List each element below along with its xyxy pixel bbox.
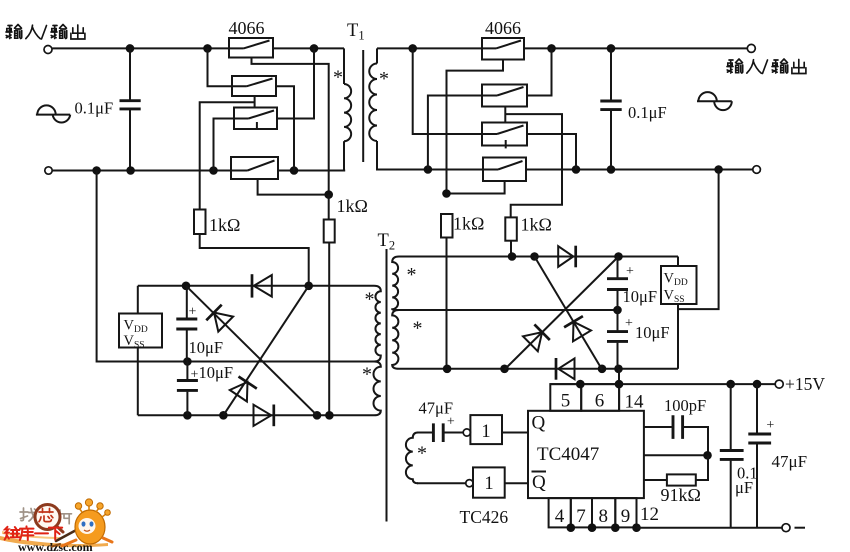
wire: S1a control down to 1k node — [252, 58, 329, 195]
svg-text:TC4047: TC4047 — [537, 444, 599, 465]
resistor R4 1k (right block right) — [505, 217, 517, 240]
svg-text:6: 6 — [595, 391, 605, 412]
node: +15V terminal — [775, 380, 783, 388]
capacitor C6 10uF lower-right: leads — [617, 310, 619, 369]
svg-text:Q: Q — [532, 472, 546, 493]
wire: top-left rail — [52, 47, 229, 49]
wire: R3 bottom to right bridge bottom line — [446, 238, 448, 369]
capacitor C10 plates — [748, 434, 771, 443]
resistor R2 1k (right of left block) — [324, 220, 335, 243]
transformer T1 primary top lead — [343, 48, 345, 84]
capacitor C4 10uF lower-left: leads — [186, 362, 188, 416]
svg-text:91kΩ: 91kΩ — [661, 485, 701, 505]
analog switch S3b — [482, 123, 527, 146]
node: dot cap midpoint left — [183, 357, 192, 366]
gate U2a input bubble — [463, 429, 470, 436]
svg-text:TC426: TC426 — [460, 507, 509, 527]
wire: common tap from upper rail to cap midpoint and T2 centre tap — [97, 171, 374, 362]
wire: bottom-left rail — [52, 170, 231, 172]
svg-text:0.1μF: 0.1μF — [75, 99, 114, 118]
capacitor C5 plates — [607, 279, 628, 290]
capacitor C10 47uF: top lead — [756, 384, 758, 433]
node: dot right 0.1uF bottom — [607, 165, 616, 174]
wire: VDD box bottom to right bridge bottom line — [677, 304, 679, 369]
node: dots on +15V rail — [576, 380, 585, 389]
wire: S4a control to 1k node — [258, 179, 329, 195]
capacitor C2 0.1uF right: top lead — [610, 48, 612, 99]
transformer T1 secondary bottom lead — [377, 141, 428, 170]
wire: S1b control down to 1k node — [447, 60, 504, 194]
IC U1 TC4047 body — [528, 411, 644, 498]
resistor R1 1k (left) — [194, 210, 206, 235]
wire: top rail from switch S1a to T1 primary — [273, 47, 344, 49]
transformer T2 right winding upper half — [392, 257, 399, 311]
wire: drive winding top lead to C7 — [417, 432, 432, 434]
capacitor C2 bottom lead — [610, 111, 612, 170]
analog switch S3a control stub — [256, 122, 258, 130]
wire: control node to right 1k resistor R4 — [505, 114, 562, 217]
wire: S3b output to bottom rail — [527, 134, 576, 170]
node: junction dot at 0.1uF tap — [126, 44, 135, 53]
gate U2a (TC426 driver) box — [470, 415, 502, 444]
svg-text:8: 8 — [599, 506, 609, 527]
capacitor C7 47uF plates (vertical) — [433, 423, 443, 442]
transformer T2 drive winding (lower right) — [406, 433, 418, 484]
wire: S2b right to top rail — [527, 48, 552, 95]
svg-text:4066: 4066 — [485, 18, 521, 38]
transformer T1 secondary top lead — [376, 48, 378, 63]
capacitor C1 0.1uF left: top lead — [129, 48, 131, 99]
node: dot at S1a/S4a control junction — [324, 190, 333, 199]
label: 输入/输出 (input/output) top-left — [6, 25, 40, 39]
svg-text:10μF: 10μF — [189, 338, 224, 357]
svg-text:14: 14 — [625, 392, 645, 413]
wire: TC4047 pin to 91k — [644, 479, 667, 481]
svg-text:*: * — [407, 264, 417, 286]
analog switch S1b — [482, 38, 524, 60]
svg-text:*: * — [417, 443, 427, 465]
wire: S3b input from top rail — [413, 48, 482, 134]
node: left input/output terminal (top) — [44, 46, 52, 54]
svg-text:4066: 4066 — [229, 18, 265, 38]
transformer T1 primary bottom lead — [343, 141, 345, 170]
wire: TC4047 mid pin to RC node — [644, 454, 708, 456]
node: junction dot at S3a output tap — [310, 44, 319, 53]
wire: top rail right side — [377, 47, 482, 49]
gate U2b input bubble — [466, 480, 473, 487]
svg-text:10μF: 10μF — [635, 323, 670, 342]
node: negative terminal — [782, 524, 790, 532]
svg-text:0.1μF: 0.1μF — [628, 103, 667, 122]
svg-text:1: 1 — [481, 422, 490, 442]
capacitor C9 bottom lead — [730, 461, 732, 528]
watermark swoosh — [0, 536, 108, 547]
node: dot left bridge top at cap chain — [182, 282, 191, 291]
gate U2b box — [473, 467, 505, 497]
wire: right bridge top line — [399, 256, 678, 258]
svg-text:1: 1 — [484, 474, 493, 494]
wire: S2a input from top rail — [208, 48, 233, 86]
wire: R2 top lead — [328, 195, 330, 220]
box: VDD VSS supply (left) — [119, 314, 162, 348]
capacitor C1 bottom lead — [129, 110, 131, 171]
AC sine symbol left — [36, 105, 70, 122]
wire: S2a/S3a control node vertical — [254, 96, 256, 108]
wire: bridge positive link down to +15V rail — [618, 369, 620, 384]
node: dot S2b output tap — [547, 44, 556, 53]
transformer T1 core — [362, 50, 364, 162]
node: dot right 0.1uF top — [607, 44, 616, 53]
svg-text:5: 5 — [561, 391, 571, 412]
svg-text:+: + — [626, 264, 634, 279]
wire: TC4047 pin to 100pF — [644, 426, 672, 428]
watermark magnifier ring — [35, 505, 60, 530]
node: dots right bridge bottom line — [443, 365, 452, 374]
wire: top rail from S1b to right terminal — [524, 47, 747, 49]
AC sine symbol right — [697, 92, 732, 110]
svg-text:+: + — [191, 368, 199, 383]
diode D6 on diagonal L1 (points up-left) — [535, 257, 603, 370]
svg-text:μF: μF — [735, 478, 753, 497]
svg-text:T1: T1 — [347, 21, 365, 43]
svg-text:VSS: VSS — [664, 288, 685, 306]
diode D7 on diagonal L2 (points up-right) — [505, 257, 619, 370]
svg-text:100pF: 100pF — [664, 396, 706, 415]
wire: control node to left 1k resistor — [200, 102, 255, 209]
wire: left bridge bottom line — [138, 414, 374, 416]
svg-text:+: + — [189, 305, 197, 320]
pin box 5 — [550, 384, 581, 411]
node: dots right bridge top line — [508, 252, 517, 261]
wire: S2b left to bottom rail — [428, 96, 482, 170]
node: dot right cap midpoint — [613, 306, 622, 315]
transformer T2 left winding lower half — [373, 362, 380, 416]
wire: R2 bottom to left bridge bottom line — [328, 243, 330, 416]
wire: left bridge left vertical (upper) — [137, 286, 139, 314]
analog switch S3b control stub — [505, 140, 507, 148]
label: 输入/输出 right — [727, 59, 761, 73]
svg-text:+: + — [625, 316, 633, 331]
capacitor C2 plates — [600, 101, 621, 110]
svg-text:VDD: VDD — [664, 271, 688, 289]
diode D8 (right bridge bottom, points left) — [558, 358, 574, 379]
wire: S2b/S3b control node vertical — [504, 107, 506, 123]
diode D1 (left bridge top, points left) — [251, 274, 254, 297]
wire: left bridge top line — [138, 285, 374, 287]
wire: S3a output to top rail — [277, 48, 314, 118]
wire: U2b output to TC4047 Qbar — [505, 482, 528, 484]
transformer T2 core — [386, 249, 388, 522]
wire: R4 bottom to right bridge top line — [510, 241, 512, 257]
pin 14 divider and label — [618, 384, 620, 411]
resistor R5 91k (horizontal) — [667, 474, 696, 485]
wire: negative rail — [637, 527, 783, 529]
svg-text:*: * — [379, 68, 389, 90]
node: dot S3b input tap — [408, 44, 417, 53]
wire: right bridge bottom line — [399, 368, 678, 370]
wire: left bridge left vertical (lower) — [137, 348, 139, 416]
svg-text:+15V: +15V — [785, 374, 825, 394]
svg-text:10μF: 10μF — [623, 287, 658, 306]
svg-text:12: 12 — [640, 504, 659, 525]
analog switch S1a (4066 left) — [229, 38, 273, 58]
node: dot RC node — [703, 451, 712, 460]
label: minus sign — [795, 527, 806, 529]
svg-text:4: 4 — [555, 506, 565, 527]
capacitor C3 plates — [176, 319, 197, 329]
wire: +15V rail — [550, 383, 775, 385]
watermark mascot — [52, 499, 112, 547]
svg-text:VSS: VSS — [124, 333, 145, 351]
capacitor C10 bottom lead — [756, 444, 758, 528]
svg-text:10μF: 10μF — [199, 363, 234, 382]
analog switch S3a — [234, 108, 277, 130]
pin box 6 — [581, 384, 619, 411]
capacitor C3 10uF upper-left: leads — [186, 286, 188, 362]
svg-text:47μF: 47μF — [772, 452, 808, 471]
node: right input/output terminal (bottom) — [753, 166, 761, 174]
node: dot at S3a input tap — [209, 166, 218, 175]
node: dot at C1 bottom — [126, 166, 135, 175]
svg-text:1kΩ: 1kΩ — [453, 214, 484, 234]
watermark text 找芯片 (gray outline style) — [20, 508, 72, 524]
wire: R1 bottom to left bridge top line — [200, 234, 309, 286]
svg-text:*: * — [362, 364, 372, 386]
node: bottom-left terminal — [45, 167, 52, 174]
node: dot common-supply tap right — [714, 165, 723, 174]
svg-text:+: + — [766, 418, 774, 433]
wire: S2a output to bottom rail — [276, 86, 294, 170]
node: dots on negative rail at pin dividers — [567, 523, 576, 532]
diode D4 (left bridge bottom, points right) — [254, 405, 272, 426]
wire: right bridge top corner to VDD box — [677, 257, 679, 267]
svg-text:9: 9 — [621, 506, 631, 527]
watermark: dzsc logo group — [0, 499, 112, 552]
transformer T1 secondary winding — [369, 64, 377, 142]
svg-text:*: * — [365, 289, 375, 311]
transformer T1 primary winding — [344, 84, 351, 141]
svg-text:1kΩ: 1kΩ — [209, 215, 240, 235]
node: dot S3b output tap — [572, 165, 581, 174]
box: VDD VSS supply (right) — [661, 266, 697, 304]
wire: bottom rail right side — [428, 169, 753, 171]
capacitor C4 plates — [177, 381, 198, 391]
capacitor C5 10uF upper-right: leads — [617, 257, 619, 311]
node: junction dot at S2a input tap — [203, 44, 212, 53]
analog switch S2a — [232, 76, 276, 96]
watermark text 维库一下 (red) — [5, 526, 63, 540]
wire: right common down to VSS net — [678, 170, 719, 310]
wire: U2a output to TC4047 Q — [502, 432, 528, 434]
node: dot S1b/S4b control junction — [442, 189, 451, 198]
analog switch S2b — [482, 85, 527, 107]
capacitor C8 100pF plates (vertical) — [673, 415, 683, 439]
analog switch S4a — [231, 157, 278, 179]
wire: 91k to RC node — [696, 455, 708, 480]
svg-text:7: 7 — [576, 506, 586, 527]
svg-text:1kΩ: 1kΩ — [521, 215, 552, 235]
diode D3 on diagonal from top-right (points up-right) — [223, 286, 308, 416]
node: dot at supply-common tap — [92, 166, 101, 175]
wire: S4b control to 1k node — [447, 181, 505, 194]
capacitor C9 0.1uF: top lead — [730, 384, 732, 449]
svg-text:Q: Q — [532, 413, 546, 434]
node: dot S2b tap on bottom rail — [424, 165, 433, 174]
capacitor C9 plates — [720, 451, 744, 460]
node: dot at S2a output tap — [290, 166, 299, 175]
transformer T2 right winding lower half — [392, 310, 399, 369]
svg-text:+: + — [447, 415, 455, 430]
wire: S3a input to bottom rail — [214, 119, 235, 171]
wire: right bridge centre tap line — [399, 309, 618, 311]
pin row boxes 4 7 8 9 — [549, 498, 571, 527]
analog switch S4b — [483, 158, 526, 182]
diode D5 (right bridge top, points right) — [558, 246, 573, 267]
node: dots left bridge bottom line — [183, 411, 192, 420]
node: dot left bridge top at R1 feed — [304, 282, 313, 291]
node: right input/output terminal (top) — [747, 44, 755, 52]
wire: 100pF to RC node — [684, 427, 708, 455]
capacitor C1 plates — [120, 101, 141, 109]
resistor R3 1k (right block left) — [441, 214, 453, 238]
diode D2 on diagonal from top-left (points up-left) — [186, 286, 317, 416]
svg-text:1kΩ: 1kΩ — [337, 196, 368, 216]
wire: drive winding bottom lead to U2b bubble — [417, 482, 466, 484]
capacitor C6 plates — [607, 332, 628, 342]
transformer T2 left winding upper half — [374, 286, 381, 362]
wire: bottom rail from S4a to T1 — [278, 170, 345, 172]
svg-text:*: * — [333, 67, 343, 89]
svg-text:*: * — [413, 318, 423, 340]
wire: C7 to gate U2a input bubble — [445, 432, 464, 434]
